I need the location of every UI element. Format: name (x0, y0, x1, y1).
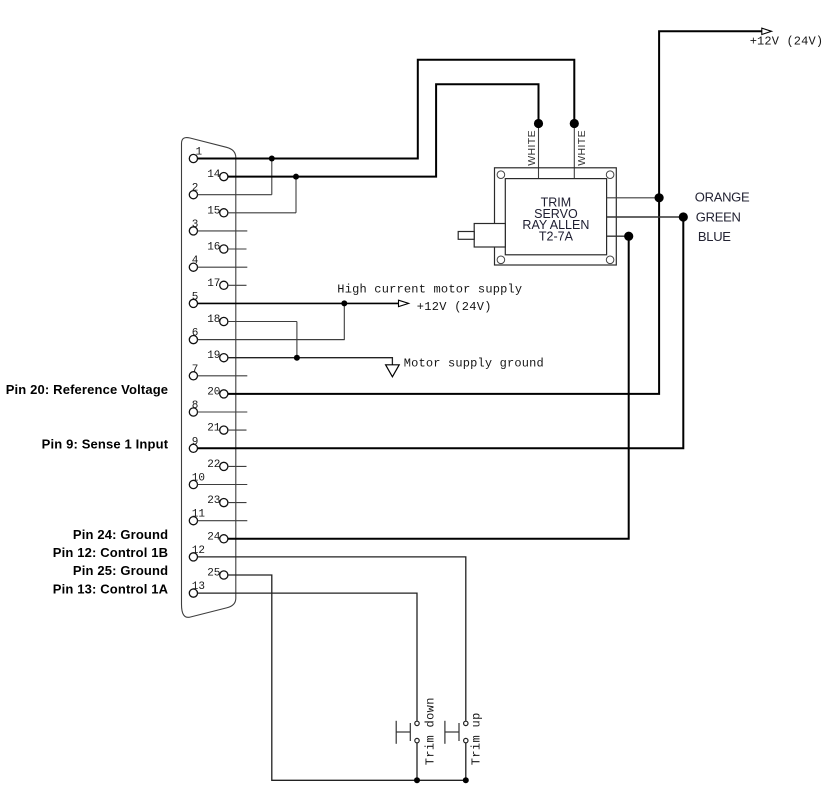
connector pin 18 (207, 314, 297, 326)
wire pin1 to white wire A (net V+) (198, 60, 575, 159)
svg-text:ORANGE: ORANGE (695, 189, 750, 204)
connector pin 17 (207, 278, 246, 290)
svg-text:Pin 20: Reference Voltage: Pin 20: Reference Voltage (6, 382, 168, 397)
svg-text:3: 3 (192, 219, 199, 231)
svg-text:4: 4 (192, 255, 199, 267)
pushbutton S1 trim down (396, 721, 419, 744)
label +12V (24V) top (750, 35, 824, 49)
svg-text:24: 24 (207, 531, 221, 543)
label Pin 13: Control 1A (53, 581, 169, 596)
junction white lead B (570, 119, 579, 128)
junction trim-down / ground bus (414, 777, 420, 783)
svg-text:7: 7 (192, 364, 199, 376)
svg-text:19: 19 (207, 350, 220, 362)
wire pin14 to white wire B (228, 84, 539, 176)
connector pin 1 (189, 147, 202, 163)
svg-text:13: 13 (192, 581, 205, 593)
label Trim down (423, 697, 437, 765)
ground symbol motor supply (386, 365, 400, 377)
wire pin13 to trim-down switch (198, 593, 417, 721)
svg-text:Trim down: Trim down (423, 697, 437, 765)
servo nameplate text TRIM SERVO RAY ALLEN T2-7A (522, 195, 589, 243)
connector pin 9 (189, 436, 198, 452)
connector pin 2 (189, 183, 272, 199)
svg-text:17: 17 (207, 278, 220, 290)
servo orange lead (607, 197, 660, 199)
wire tie pin6 to pin5 (198, 303, 345, 339)
svg-text:Trim up: Trim up (469, 712, 483, 765)
svg-text:15: 15 (207, 205, 220, 217)
connector pin 7 (189, 364, 247, 380)
svg-text:WHITE: WHITE (576, 130, 588, 166)
servo white lead B (right) (573, 124, 575, 179)
junction pin1/pin2 (269, 156, 275, 162)
servo output shaft (458, 224, 505, 248)
svg-text:T2-7A: T2-7A (539, 229, 574, 243)
servo mounting hole top-left (497, 171, 505, 179)
svg-text:Pin 9: Sense 1 Input: Pin 9: Sense 1 Input (42, 437, 169, 452)
svg-text:23: 23 (207, 495, 220, 507)
wire pin19 to motor supply ground (228, 358, 392, 365)
svg-text:High current motor supply: High current motor supply (337, 282, 522, 296)
connector pin 20 (207, 386, 228, 398)
label BLUE (698, 229, 731, 244)
label Pin 20: Reference Voltage (6, 382, 168, 397)
servo mounting hole top-right (606, 171, 614, 179)
wire tie pin18 to pin19 (296, 322, 298, 358)
svg-text:+12V (24V): +12V (24V) (417, 300, 492, 314)
svg-text:8: 8 (192, 400, 199, 412)
svg-text:18: 18 (207, 314, 220, 326)
svg-text:Pin 25: Ground: Pin 25: Ground (73, 563, 168, 578)
wire pin5 to motor supply arrow (198, 302, 399, 304)
connector pin 25 (207, 568, 228, 580)
arrow +12V (24V) top (762, 28, 772, 34)
wire +12V supply to pin20 (reference voltage) (228, 31, 762, 394)
svg-text:16: 16 (207, 242, 220, 254)
connector J1 DB-25 body outline (182, 138, 236, 618)
svg-text:1: 1 (196, 147, 203, 159)
svg-text:GREEN: GREEN (696, 210, 741, 225)
junction white lead A (534, 119, 543, 128)
connector pin 5 (189, 291, 198, 307)
connector pin 12 (189, 545, 205, 561)
svg-text:+12V (24V): +12V (24V) (750, 35, 824, 49)
connector pin 15 (207, 205, 296, 217)
wire green lead to pin9 (sense 1 input) (198, 217, 684, 448)
connector pin 8 (189, 400, 247, 416)
connector pin 19 (207, 350, 228, 362)
svg-text:25: 25 (207, 568, 220, 580)
servo white lead A (left) (538, 124, 540, 179)
connector pin 22 (207, 459, 246, 471)
svg-text:10: 10 (192, 473, 205, 485)
junction orange lead (655, 193, 664, 202)
svg-text:5: 5 (192, 291, 199, 303)
label WHITE (right lead) (576, 130, 588, 166)
svg-text:Pin 12: Control 1B: Pin 12: Control 1B (53, 545, 168, 560)
svg-text:9: 9 (192, 436, 199, 448)
svg-text:2: 2 (192, 183, 199, 195)
svg-text:14: 14 (207, 169, 221, 181)
servo green lead (607, 216, 684, 218)
label +12V (24V) motor supply (417, 300, 492, 314)
connector pin 11 (189, 509, 247, 525)
connector pin 23 (207, 495, 246, 507)
label GREEN (696, 210, 741, 225)
label Pin 25: Ground (73, 563, 168, 578)
junction pin18/pin19 (294, 355, 300, 361)
svg-text:BLUE: BLUE (698, 229, 731, 244)
label ORANGE (695, 189, 750, 204)
junction trim-up / ground bus (463, 777, 469, 783)
servo mounting hole bottom-right (606, 256, 614, 264)
junction blue lead (624, 232, 633, 241)
svg-text:6: 6 (192, 328, 199, 340)
label Trim up (469, 712, 483, 765)
wire trim-down switch to ground bus (416, 743, 418, 780)
connector pin 13 (189, 581, 205, 597)
label Motor supply ground (404, 357, 544, 371)
servo mounting hole bottom-left (497, 256, 505, 264)
label WHITE (left lead) (526, 130, 538, 166)
wire pin25 ground bus to switches (228, 575, 466, 780)
junction pin5/pin6 (341, 300, 347, 306)
svg-text:20: 20 (207, 386, 220, 398)
connector pin 14 (207, 169, 228, 181)
connector pin 6 (189, 328, 344, 344)
label High current motor supply (337, 282, 522, 296)
label Pin 9: Sense 1 Input (42, 437, 169, 452)
pushbutton S2 trim up (445, 721, 468, 744)
label Pin 12: Control 1B (53, 545, 168, 560)
connector pin 4 (189, 255, 247, 271)
connector pin 24 (207, 531, 228, 543)
svg-text:12: 12 (192, 545, 205, 557)
svg-text:21: 21 (207, 423, 221, 435)
servo blue lead (607, 235, 629, 237)
connector pin 16 (207, 242, 246, 254)
svg-text:WHITE: WHITE (526, 130, 538, 166)
connector pin 3 (189, 219, 247, 235)
svg-text:11: 11 (192, 509, 206, 521)
svg-text:Pin 24: Ground: Pin 24: Ground (73, 527, 168, 542)
label Pin 24: Ground (73, 527, 168, 542)
svg-text:22: 22 (207, 459, 220, 471)
wire tie pin15 to pin14 (295, 177, 297, 213)
wire trim-up switch to ground bus (465, 743, 467, 780)
wire pin12 to trim-up switch (198, 557, 466, 721)
svg-text:Pin 13: Control 1A: Pin 13: Control 1A (53, 581, 169, 596)
svg-text:Motor supply ground: Motor supply ground (404, 357, 544, 371)
trim servo U1 body (495, 168, 617, 265)
connector pin 21 (207, 423, 246, 435)
junction pin14/pin15 (293, 174, 299, 180)
wire blue lead to pin24 (ground) (228, 236, 629, 539)
junction green lead (679, 212, 688, 221)
arrow +12V (24V) motor supply (399, 300, 409, 306)
wire tie pin2 to pin1 (271, 159, 273, 195)
connector pin 10 (189, 473, 247, 489)
